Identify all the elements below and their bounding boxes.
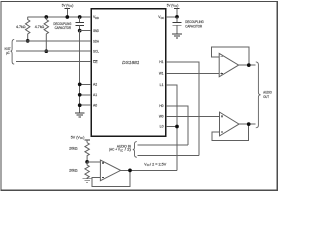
svg-text:DECOUPLING: DECOUPLING <box>185 20 204 24</box>
resistor 4.7k pullup SCL <box>35 17 49 51</box>
IC label DS1881 <box>122 60 139 65</box>
junction opamp3 output <box>128 169 132 173</box>
IC U1 DS1881 outline <box>91 9 166 137</box>
svg-text:): ) <box>72 3 73 7</box>
op-amp U4 VCC/2 buffer <box>100 160 120 181</box>
pin GND label <box>93 29 99 33</box>
svg-text:/ 2 = 2.5V: / 2 = 2.5V <box>150 162 167 166</box>
svg-text:OUT: OUT <box>263 95 269 99</box>
pin W0 label <box>159 115 164 119</box>
junction A2 <box>78 83 82 87</box>
pin L1 label <box>160 83 164 87</box>
power 5V supply top-left <box>62 3 74 17</box>
ground symbol left bus <box>75 113 85 117</box>
svg-text:SCL: SCL <box>93 50 99 54</box>
junction cap on VDD rail <box>78 15 82 19</box>
label VCC/2 = 2.5V <box>144 162 167 167</box>
junction opamp2 output <box>247 122 251 126</box>
wire GND pin <box>80 30 91 32</box>
svg-text:A0: A0 <box>93 104 97 108</box>
wire SDA <box>16 40 91 42</box>
pin VCC label <box>158 15 164 20</box>
junction divider midpoint <box>85 160 89 164</box>
ground symbol divider <box>82 179 91 183</box>
op-amp U3 channel0 buffer <box>220 112 240 136</box>
junction R1 bottom on SDA <box>26 39 30 43</box>
svg-text:µC: µC <box>6 51 10 55</box>
wire opamp3 output VCC/2 <box>121 169 177 171</box>
junction cap bottom GND <box>78 29 82 33</box>
brace audio in <box>133 142 137 158</box>
label decoupling capacitor right <box>185 20 204 29</box>
resistor 20k lower divider <box>69 162 89 179</box>
svg-text:): ) <box>177 3 178 7</box>
svg-text:GND: GND <box>93 29 99 33</box>
svg-text:L0: L0 <box>160 125 164 129</box>
pin W1 label <box>159 72 164 76</box>
wire W0 to opamp2 <box>166 115 220 117</box>
pin CE label with overline <box>93 60 98 64</box>
svg-text:SDA: SDA <box>93 39 100 43</box>
brace audio out <box>256 62 261 128</box>
svg-text:H0: H0 <box>159 104 163 108</box>
junction supply on VDD rail <box>65 15 69 19</box>
svg-text:20kΩ: 20kΩ <box>69 146 78 150</box>
wire CE <box>16 61 91 63</box>
wire audio in top line <box>137 144 188 146</box>
pin SDA label <box>93 39 100 43</box>
junction R2 bottom on SCL <box>44 49 48 53</box>
wire H1 to audio in bottom <box>166 62 199 155</box>
pin A1 label <box>93 93 97 97</box>
wire VCC pin to supply <box>166 16 177 18</box>
svg-text:20kΩ: 20kΩ <box>69 169 78 173</box>
svg-text:4.7kΩ: 4.7kΩ <box>35 25 45 29</box>
svg-text:H1: H1 <box>159 60 163 64</box>
svg-text:W0: W0 <box>159 115 164 119</box>
svg-text:): ) <box>83 136 84 140</box>
wire W1 to opamp1 <box>166 73 219 75</box>
svg-text:(AC + V: (AC + V <box>109 148 121 152</box>
wire A1 to ground bus <box>80 94 91 96</box>
op-amp U2 channel1 buffer <box>219 53 238 76</box>
pin H0 label <box>159 104 163 108</box>
svg-text:A1: A1 <box>93 93 97 97</box>
wire audio in bottom line <box>137 154 199 156</box>
capacitor decoupling right C2 <box>173 17 182 34</box>
junction A1 <box>78 93 82 97</box>
svg-text:A2: A2 <box>93 83 97 87</box>
svg-text:L1: L1 <box>160 83 164 87</box>
wire opamp3 feedback <box>92 170 130 186</box>
wire A2 to ground bus <box>80 83 91 85</box>
wire ground vertical bus <box>79 31 81 113</box>
label AUDIO IN <box>109 144 131 152</box>
label HOST uC <box>5 47 11 55</box>
junction opamp1 output <box>247 63 251 67</box>
brace host bus <box>11 39 15 64</box>
svg-text:AUDIO: AUDIO <box>263 90 272 94</box>
svg-text:DD: DD <box>95 17 99 20</box>
label decoupling capacitor left <box>53 22 71 30</box>
capacitor decoupling left C1 <box>75 17 84 31</box>
pin SCL label <box>93 50 99 54</box>
pin L0 label <box>160 125 164 129</box>
svg-text:4.7kΩ: 4.7kΩ <box>16 25 26 29</box>
resistor 4.7k pullup SDA <box>16 17 30 41</box>
pin A0 label <box>93 104 97 108</box>
svg-text:/ 2): / 2) <box>123 148 131 152</box>
wire L1 bus down to VCC/2 <box>166 85 177 170</box>
resistor 20k upper divider <box>69 143 89 162</box>
wire SCL <box>16 50 91 52</box>
border frame <box>1 1 277 190</box>
wire L0 to bus <box>166 126 177 128</box>
svg-text:CAPACITOR: CAPACITOR <box>185 25 202 29</box>
wire H0 to audio in top <box>166 106 188 145</box>
wire A0 to ground bus <box>80 104 91 106</box>
svg-text:CE: CE <box>93 60 98 64</box>
wire opamp2 output <box>239 123 255 125</box>
pin VDD label <box>93 15 99 20</box>
wire opamp2 feedback <box>212 124 249 141</box>
wire VDD rail top-left <box>28 16 91 18</box>
junction L0 bus <box>175 125 179 129</box>
svg-text:CAPACITOR: CAPACITOR <box>55 26 72 30</box>
junction R2 top on VDD rail <box>44 15 48 19</box>
power 5V supply top-right <box>167 3 180 16</box>
svg-text:DS1881: DS1881 <box>122 60 139 65</box>
wire opamp1 feedback <box>212 47 249 65</box>
junction VCC supply <box>175 15 179 19</box>
wire divider to opamp3 <box>87 161 100 163</box>
label AUDIO OUT <box>263 90 272 98</box>
wire opamp1 output <box>239 64 256 66</box>
power 5V supply divider <box>71 136 90 143</box>
pin A2 label <box>93 83 97 87</box>
junction A0 <box>78 103 82 107</box>
svg-text:W1: W1 <box>159 72 164 76</box>
svg-text:CC: CC <box>161 17 165 20</box>
pin H1 label <box>159 60 163 64</box>
ground symbol right cap <box>172 34 182 38</box>
